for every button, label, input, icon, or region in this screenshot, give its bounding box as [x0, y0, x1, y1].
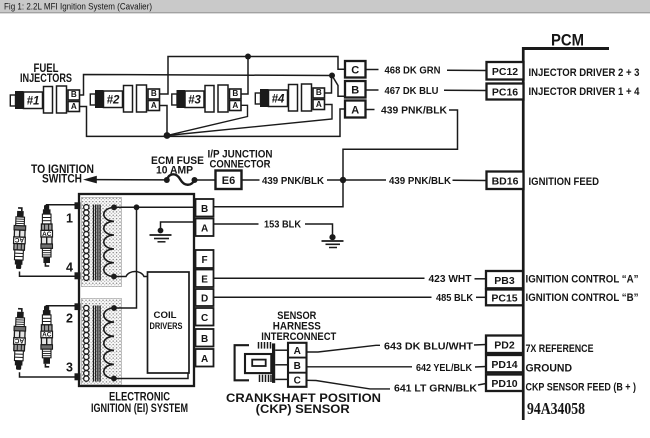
- wire 439 to BD16: [453, 179, 487, 181]
- PCM pin PD2: [486, 336, 523, 354]
- svg-text:439 PNK/BLK: 439 PNK/BLK: [389, 175, 451, 187]
- injector #2: [90, 85, 159, 112]
- wire 439 net: injector 1 A along bottom to connector A: [80, 107, 345, 137]
- svg-text:COIL: COIL: [154, 310, 178, 320]
- CKP sensor comb bottom: [260, 375, 272, 382]
- label I/P JUNCTION CONNECTOR: [208, 148, 273, 170]
- ground right of 153 BLK: [322, 234, 344, 247]
- wire coil secondary tops to pin B: [114, 206, 196, 208]
- PCM pin PC12: [487, 62, 524, 80]
- connector pin C: [345, 61, 366, 78]
- EI pin C: [196, 308, 214, 326]
- CKP sensor comb top: [259, 342, 271, 349]
- junction dot ignition feed: [340, 177, 346, 183]
- label SENSOR HARNESS INTERCONNECT: [261, 310, 336, 343]
- svg-text:PD2: PD2: [494, 340, 515, 352]
- wire coil 2 bottom to coil drivers: [114, 373, 188, 379]
- wire 467 DK BLU to PC16: [366, 85, 487, 97]
- label TO IGNITION SWITCH: [31, 164, 94, 186]
- svg-text:423 WHT: 423 WHT: [429, 273, 473, 285]
- svg-text:#3: #3: [188, 95, 201, 107]
- wire 468 DK GRN to PC12: [366, 64, 487, 76]
- EI pin F: [196, 250, 214, 268]
- label ECM FUSE 10 AMP: [151, 155, 204, 177]
- svg-text:B: B: [201, 334, 208, 345]
- svg-text:C: C: [201, 313, 208, 324]
- wire injector 3 B riser: [242, 57, 249, 95]
- wire 643 DK BLU/WHT to PD2: [307, 340, 487, 352]
- ground inside EI module: [150, 222, 197, 242]
- svg-text:(CKP) SENSOR: (CKP) SENSOR: [256, 404, 351, 416]
- connector pin B: [345, 81, 366, 98]
- wire 439 feed middle segment: [327, 179, 386, 181]
- wire sensor pin A: [275, 349, 288, 351]
- EI pin A: [196, 219, 214, 237]
- svg-text:IGNITION (EI) SYSTEM: IGNITION (EI) SYSTEM: [91, 403, 188, 415]
- sensor interconnect pins A B C: [288, 343, 307, 387]
- svg-text:B: B: [201, 204, 208, 215]
- svg-text:GROUND: GROUND: [526, 363, 573, 375]
- svg-text:INTERCONNECT: INTERCONNECT: [261, 331, 336, 343]
- EI pin B: [196, 199, 214, 217]
- label FUEL INJECTORS: [20, 63, 72, 85]
- svg-text:F: F: [202, 255, 208, 266]
- svg-text:INJECTOR DRIVER 1 + 4: INJECTOR DRIVER 1 + 4: [529, 86, 641, 98]
- svg-text:C: C: [351, 65, 359, 77]
- svg-text:PC12: PC12: [492, 66, 518, 78]
- CKP sensor body: [235, 345, 272, 380]
- svg-text:CONNECTOR: CONNECTOR: [210, 158, 271, 170]
- junction dot coil 2 bottom: [111, 376, 117, 382]
- wire sensor pin B: [275, 364, 288, 366]
- wire 153 BLK to right ground: [214, 219, 333, 235]
- wire vertical link to coil 2: [114, 207, 137, 308]
- label CRANKSHAFT POSITION (CKP) SENSOR: [226, 393, 381, 416]
- svg-text:PB3: PB3: [494, 275, 515, 287]
- wire 468 net: injector 2 B to connector C: [160, 57, 345, 95]
- svg-text:439 PNK/BLK: 439 PNK/BLK: [262, 175, 324, 187]
- svg-text:7X REFERENCE: 7X REFERENCE: [526, 343, 594, 355]
- svg-text:INJECTORS: INJECTORS: [20, 73, 72, 85]
- coil 1 terminal 1: [75, 202, 81, 209]
- injector #1: [10, 86, 79, 113]
- spark plug wire cyl 4: [20, 272, 75, 277]
- wire E6 to 439 label: [242, 179, 260, 181]
- spark plug 2 (upright): [41, 306, 53, 367]
- wire feed from arrow to fuse: [96, 179, 167, 181]
- svg-text:PCM: PCM: [551, 30, 584, 49]
- junction dot 467 net: [329, 73, 335, 79]
- EI pin D: [196, 289, 214, 306]
- svg-text:A: A: [201, 223, 208, 234]
- svg-text:INJECTOR DRIVER 2 + 3: INJECTOR DRIVER 2 + 3: [529, 67, 640, 79]
- svg-text:PD10: PD10: [491, 378, 517, 390]
- coil 2 terminal 2: [75, 303, 81, 310]
- wire coil 1 bottom to coil drivers with hop: [114, 271, 148, 276]
- injector #3: [172, 85, 241, 112]
- title bar: [0, 0, 650, 13]
- svg-text:643 DK BLU/WHT: 643 DK BLU/WHT: [384, 340, 474, 352]
- svg-text:#2: #2: [107, 95, 120, 107]
- svg-text:1: 1: [66, 212, 73, 226]
- junction dot coil 1 bottom: [111, 274, 117, 280]
- spark plug wire cyl 1: [47, 204, 75, 207]
- svg-text:PD14: PD14: [491, 359, 517, 371]
- svg-text:642 YEL/BLK: 642 YEL/BLK: [416, 362, 472, 374]
- injector #4: [255, 84, 324, 111]
- svg-text:A: A: [201, 354, 208, 365]
- arrow to ignition switch: [83, 176, 97, 184]
- PCM pin PC15: [486, 290, 523, 306]
- spark plug wire cyl 3: [20, 372, 75, 377]
- svg-text:Fig 1: 2.2L MFI Ignition Syste: Fig 1: 2.2L MFI Ignition System (Cavalie…: [4, 2, 152, 12]
- svg-text:PC16: PC16: [492, 87, 518, 99]
- PCM header: [523, 30, 609, 50]
- svg-text:94A34058: 94A34058: [527, 399, 585, 418]
- EI pin A lower: [196, 349, 214, 367]
- spark plug 4 (inverted, cyl 4): [13, 208, 27, 269]
- svg-text:153 BLK: 153 BLK: [264, 219, 301, 231]
- wire 467 net: injector 1 B to connector B: [80, 75, 345, 97]
- svg-text:C: C: [294, 376, 301, 387]
- junction dot coil 1 top: [111, 204, 117, 210]
- EI pin E: [196, 270, 214, 288]
- CKP connector face bar: [272, 343, 275, 383]
- svg-text:2: 2: [66, 312, 73, 326]
- svg-text:A: A: [294, 346, 301, 357]
- coil 1 terminal 4: [75, 272, 81, 279]
- spark plug 1 (upright, cyl 1): [41, 205, 53, 266]
- PCM pin PD14: [486, 355, 523, 372]
- fuse ECM 10A: [164, 174, 198, 184]
- junction dot 439 net: [164, 132, 171, 139]
- svg-text:D: D: [201, 294, 208, 305]
- wire injector 4 B riser: [325, 76, 332, 94]
- svg-text:485 BLK: 485 BLK: [436, 292, 473, 304]
- spark plug wire cyl 2: [47, 305, 75, 308]
- PCM spine: [522, 47, 525, 420]
- svg-text:641 LT GRN/BLK: 641 LT GRN/BLK: [394, 383, 477, 395]
- svg-text:PC15: PC15: [491, 293, 517, 305]
- PCM pin BD16: [487, 172, 524, 190]
- wire 641 LT GRN/BLK to PD10: [307, 380, 487, 394]
- wire 423 WHT to PB3: [214, 273, 487, 285]
- coil assembly 2 (bottom): [81, 299, 121, 385]
- svg-text:439 PNK/BLK: 439 PNK/BLK: [381, 104, 447, 116]
- svg-text:468 DK GRN: 468 DK GRN: [385, 64, 441, 76]
- svg-text:DRIVERS: DRIVERS: [150, 321, 183, 331]
- svg-text:IGNITION CONTROL “B”: IGNITION CONTROL “B”: [526, 292, 639, 304]
- svg-text:IGNITION CONTROL “A”: IGNITION CONTROL “A”: [526, 273, 639, 285]
- coil 2 terminal 3: [75, 373, 81, 380]
- svg-text:E6: E6: [222, 175, 235, 187]
- connector pin A: [345, 101, 366, 118]
- svg-text:E: E: [201, 274, 208, 285]
- PCM pin PB3: [486, 271, 523, 288]
- svg-text:3: 3: [66, 361, 73, 375]
- svg-text:CKP SENSOR FEED (B + ): CKP SENSOR FEED (B + ): [526, 381, 637, 393]
- svg-text:BD16: BD16: [492, 176, 519, 188]
- svg-text:IGNITION FEED: IGNITION FEED: [529, 176, 600, 188]
- svg-text:4: 4: [66, 261, 73, 275]
- EI module box: [79, 194, 194, 386]
- PCM pin PC16: [487, 84, 524, 100]
- junction dot coil 2 top: [111, 305, 117, 311]
- wire 642 YEL/BLK to PD14: [307, 362, 487, 374]
- svg-text:#4: #4: [272, 94, 285, 106]
- junction dot link: [134, 204, 140, 210]
- label ELECTRONIC IGNITION (EI) SYSTEM: [91, 392, 188, 416]
- PCM pin PD10: [486, 375, 523, 392]
- svg-text:467 DK BLU: 467 DK BLU: [385, 85, 439, 97]
- wire sensor pin C: [275, 378, 288, 380]
- junction dot 468 net: [245, 54, 251, 60]
- spark plug 3 (inverted): [13, 309, 27, 370]
- coil assembly 1 (top): [81, 198, 121, 287]
- junction connector E6: [216, 171, 242, 190]
- wire 485 BLK to PC15: [214, 292, 487, 304]
- svg-text:A: A: [351, 104, 359, 116]
- svg-text:B: B: [294, 361, 301, 372]
- svg-text:B: B: [351, 85, 359, 97]
- wire 439 PNK/BLK from connector A down to feed: [214, 104, 458, 207]
- EI pin B lower: [196, 329, 214, 347]
- wire injector 3 A diagonal: [167, 105, 248, 135]
- coil drivers box: [148, 272, 190, 373]
- wire fuse to E6: [197, 179, 216, 181]
- svg-text:ELECTRONIC: ELECTRONIC: [109, 392, 170, 404]
- svg-text:SWITCH: SWITCH: [42, 174, 82, 186]
- wire injector 4 A diagonal: [167, 105, 332, 136]
- wire injector 2 A drop: [160, 106, 167, 136]
- svg-text:#1: #1: [27, 96, 40, 108]
